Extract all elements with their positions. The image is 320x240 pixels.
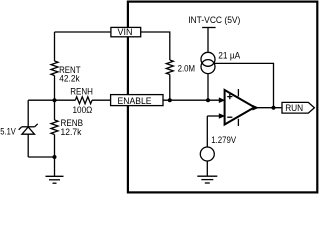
wire: INT-VCC down to current source — [207, 28, 209, 53]
junction dot: rail/RENT/RENB — [53, 98, 57, 102]
svg-text:RENH: RENH — [70, 86, 93, 96]
resistor RENH — [75, 97, 92, 104]
wire: bottom tie (zener to RENB bottom) — [28, 156, 54, 158]
voltage reference V1 1.279V — [200, 147, 214, 161]
wire: comparator output to RUN — [256, 107, 281, 109]
wire: hysteresis feed (current source to output node) — [214, 63, 274, 107]
comparator U1 — [225, 89, 255, 126]
zener diode D1 5.1V — [19, 124, 38, 134]
wire: enable rail right segment into comparator — [163, 99, 220, 101]
resistor RENT — [51, 61, 58, 76]
resistor RENB — [51, 120, 58, 135]
ENABLE box — [111, 95, 163, 106]
wire: VIN left lead from node A — [55, 31, 111, 33]
wire: zener bottom — [27, 134, 29, 157]
VIN box — [111, 27, 141, 37]
svg-text:2.0M: 2.0M — [178, 63, 195, 73]
resistor 2.0M — [166, 60, 173, 75]
svg-text:RUN: RUN — [285, 103, 303, 113]
wire: RENB bottom lead — [54, 135, 56, 158]
wire: RENT bottom to enable rail — [54, 76, 56, 101]
junction dot: 2.0M/rail — [168, 98, 172, 102]
arrow: + input — [219, 97, 226, 103]
wire: reference to ground — [206, 161, 208, 176]
svg-text:12.7k: 12.7k — [61, 127, 82, 137]
wire: zener branch top — [27, 100, 29, 127]
svg-text:100Ω: 100Ω — [73, 105, 93, 115]
wire: RENH to ENABLE box — [92, 99, 111, 101]
svg-text:1.279V: 1.279V — [211, 135, 237, 145]
wire: 2.0M bottom to rail — [169, 75, 171, 101]
junction dot: hysteresis/output — [272, 106, 276, 110]
wire: RENB top lead — [54, 100, 56, 120]
svg-text:5.1V: 5.1V — [0, 127, 16, 137]
wire: left vertical (node A down to RENT) — [54, 32, 56, 61]
ground (reference) — [197, 176, 217, 183]
svg-text:INT-VCC (5V): INT-VCC (5V) — [188, 14, 240, 25]
RUN output flag — [282, 102, 314, 113]
arrow: output — [253, 105, 260, 111]
power rail tick — [202, 27, 216, 29]
wire: current source to rail — [207, 73, 209, 100]
svg-text:ENABLE: ENABLE — [118, 95, 152, 106]
wire: minus input down to reference — [206, 116, 208, 147]
current source I1 21uA — [201, 52, 215, 73]
svg-text:42.2k: 42.2k — [59, 74, 80, 84]
wire: down to ground — [54, 157, 56, 176]
ground (left) — [46, 176, 64, 183]
svg-text:21 µA: 21 µA — [218, 50, 241, 60]
IC boundary box — [128, 2, 317, 193]
junction dot: current source/rail — [206, 98, 210, 102]
arrow: - input — [219, 113, 226, 119]
junction dot: RENB bottom/ground — [53, 155, 57, 159]
wire: enable rail left segment (zener corner to RENH) — [28, 99, 75, 101]
wire: minus input lead — [207, 115, 219, 117]
wire: VIN box to 2.0M corner — [141, 32, 170, 60]
svg-text:VIN: VIN — [118, 27, 133, 37]
